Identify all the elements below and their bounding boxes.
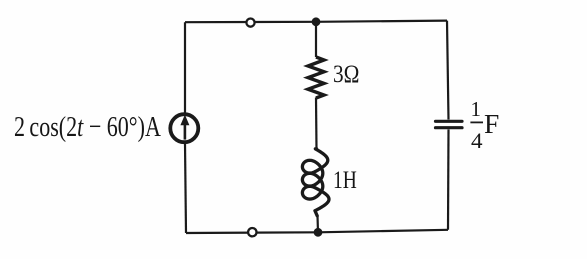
inductor L 1H coil xyxy=(302,149,329,216)
capacitor C plates xyxy=(436,121,463,127)
wire middle upper stub xyxy=(315,22,317,57)
junction dot top xyxy=(312,17,321,26)
capacitor fraction numerator 1 xyxy=(471,99,482,120)
inductor value label 1H xyxy=(333,168,357,193)
wire right lower xyxy=(447,130,450,230)
wire top xyxy=(185,21,447,23)
terminal node bottom (open circle) xyxy=(248,228,256,236)
resistor R 3ohm zigzag xyxy=(308,57,324,98)
current source I1 circle xyxy=(170,114,198,142)
current source arrow xyxy=(180,115,189,140)
junction dot bottom xyxy=(314,228,323,237)
source value label 2cos(2t-60)A xyxy=(14,113,161,142)
capacitor fraction denominator 4 xyxy=(471,130,483,152)
terminal node top (open circle) xyxy=(246,19,254,27)
wire left lower xyxy=(185,144,186,234)
capacitor fraction bar xyxy=(470,121,483,123)
wire middle between resistor and inductor xyxy=(315,98,318,150)
wire bottom xyxy=(186,230,448,233)
wire middle lower stub xyxy=(316,216,319,232)
wire left upper xyxy=(184,22,186,114)
resistor value label 3 ohm xyxy=(333,62,359,87)
wire right upper xyxy=(447,21,449,120)
capacitor unit F xyxy=(484,111,499,138)
